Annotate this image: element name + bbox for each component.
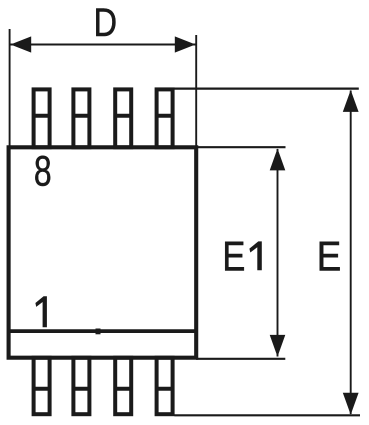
svg-text:D: D bbox=[94, 0, 117, 45]
dimension E extension line top (pin tops produced) bbox=[174, 87, 358, 89]
dimension E extension line bottom (pin bottoms produced) bbox=[174, 414, 360, 416]
dimension E1 arrowhead top bbox=[270, 149, 286, 171]
svg-text:E: E bbox=[317, 233, 341, 280]
dimension E line bbox=[350, 91, 352, 415]
pin 7 lead (top row) bbox=[73, 89, 89, 147]
dimension E1 arrowhead bottom bbox=[270, 335, 286, 357]
dimension D extension line left bbox=[9, 29, 11, 148]
label 1 (pin 1 number) bbox=[35, 296, 47, 327]
dimension E1 extension line bottom (body bottom produced) bbox=[196, 358, 285, 360]
dimension E1 extension line top (body top produced) bbox=[196, 146, 286, 148]
dimension D extension line right bbox=[195, 35, 197, 148]
dimension E1 line bbox=[277, 149, 279, 357]
pin 1 lead (bottom row, leftmost) bbox=[34, 358, 50, 415]
dimension E arrowhead bottom bbox=[343, 393, 359, 415]
dimension E arrowhead top bbox=[343, 90, 359, 112]
pin 3 lead (bottom row) bbox=[115, 358, 131, 415]
standoff line (body inner line) bbox=[9, 329, 197, 333]
pin 2 lead (bottom row) bbox=[73, 358, 89, 415]
dimension D arrowhead left bbox=[11, 36, 32, 52]
pin 6 lead (top row) bbox=[115, 89, 131, 147]
svg-text:8: 8 bbox=[34, 147, 52, 195]
pin 4 lead (bottom row, rightmost) bbox=[157, 358, 173, 415]
dimension D line bbox=[11, 43, 196, 45]
pin 8 lead (top row, leftmost) bbox=[34, 89, 50, 147]
svg-text:E: E bbox=[222, 233, 245, 280]
gate mark tick on standoff line bbox=[96, 329, 101, 335]
package body bbox=[9, 147, 197, 357]
dimension D arrowhead right bbox=[175, 36, 196, 52]
pin 5 lead (top row, rightmost) bbox=[157, 89, 173, 147]
